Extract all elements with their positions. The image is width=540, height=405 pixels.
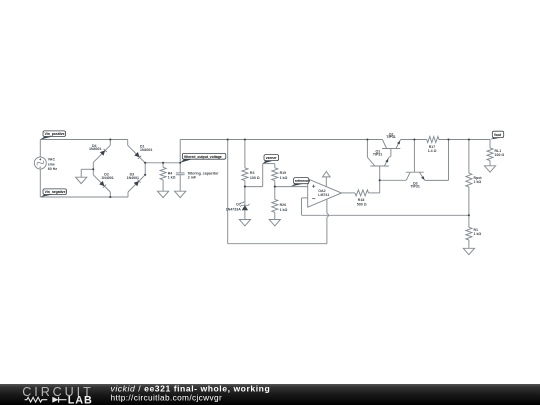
svg-text:R19: R19 — [280, 171, 287, 175]
svg-text:100 Ω: 100 Ω — [250, 176, 260, 180]
svg-text:Vin_negative: Vin_negative — [45, 190, 66, 194]
svg-text:R18: R18 — [358, 198, 365, 202]
svg-text:1N4001: 1N4001 — [101, 176, 113, 180]
svg-text:Vin_positive: Vin_positive — [45, 132, 65, 136]
svg-text:1 kΩ: 1 kΩ — [280, 176, 288, 180]
svg-text:60 Hz: 60 Hz — [48, 167, 57, 171]
svg-text:1N4001: 1N4001 — [127, 176, 139, 180]
svg-text:1 kΩ: 1 kΩ — [280, 208, 288, 212]
svg-text:TIP31: TIP31 — [410, 185, 419, 189]
svg-text:http://circuitlab.com/cjcwvgr: http://circuitlab.com/cjcwvgr — [111, 392, 223, 402]
svg-text:D7: D7 — [236, 202, 241, 206]
svg-text:LAB: LAB — [68, 395, 93, 405]
svg-text:Vout: Vout — [494, 133, 502, 137]
svg-text:R20: R20 — [280, 203, 287, 207]
svg-text:TIP31: TIP31 — [373, 152, 382, 156]
svg-text:reference: reference — [295, 179, 310, 183]
svg-text:OA2: OA2 — [318, 189, 325, 193]
svg-text:vzener: vzener — [266, 156, 277, 160]
svg-text:500 Ω: 500 Ω — [357, 202, 367, 206]
svg-text:100 Ω: 100 Ω — [495, 153, 505, 157]
svg-text:1 kΩ: 1 kΩ — [474, 180, 482, 184]
svg-text:R3: R3 — [250, 171, 255, 175]
svg-text:1 kΩ: 1 kΩ — [168, 175, 176, 179]
svg-text:LM741: LM741 — [318, 193, 329, 197]
svg-text:1 kΩ: 1 kΩ — [474, 232, 482, 236]
svg-text:1N4001: 1N4001 — [140, 148, 152, 152]
svg-text:1N4733A: 1N4733A — [226, 207, 241, 211]
svg-text:Rpot: Rpot — [474, 176, 483, 180]
svg-text:2 mF: 2 mF — [188, 175, 197, 179]
svg-text:1.4 Ω: 1.4 Ω — [428, 149, 437, 153]
svg-text:VAC: VAC — [48, 158, 56, 162]
svg-text:sine: sine — [48, 162, 55, 166]
svg-text:filtered_output_voltage: filtered_output_voltage — [184, 155, 222, 159]
svg-text:TIP31: TIP31 — [386, 135, 395, 139]
svg-text:1N4001: 1N4001 — [89, 147, 101, 151]
